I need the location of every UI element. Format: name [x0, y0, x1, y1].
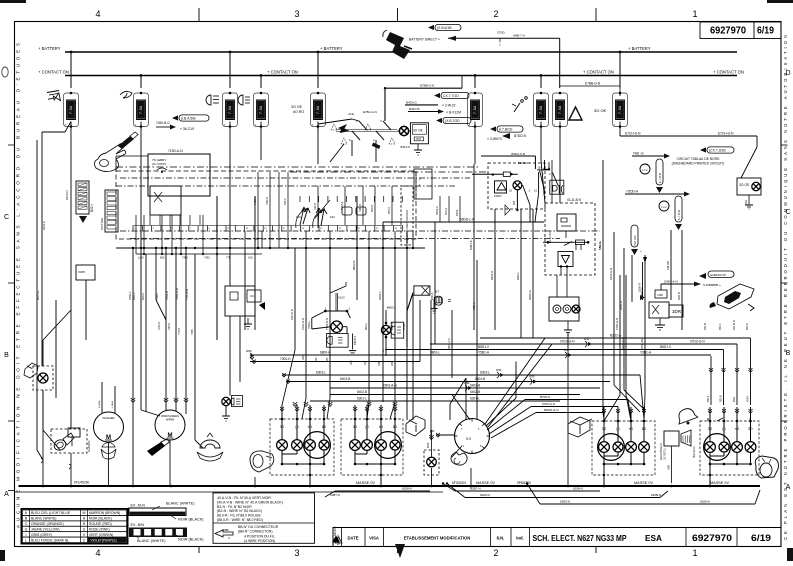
wire colour legend table — [21, 509, 127, 544]
bundle start chevrons — [246, 350, 290, 384]
band crossing verticals — [136, 172, 460, 254]
svg-text:+ CONTACT ON: + CONTACT ON — [267, 70, 298, 75]
svg-text:B15-2: B15-2 — [284, 198, 287, 205]
wire X12 pin6 down — [330, 140, 357, 196]
corner scan mark top-left — [0, 0, 26, 3]
svg-text:7.5A: 7.5A — [140, 105, 144, 114]
wire v620b — [619, 275, 621, 395]
svg-text:6-.7.B W: 6-.7.B W — [677, 209, 681, 220]
svg-text:W30: W30 — [464, 381, 470, 385]
wire fuse620 down — [619, 122, 621, 137]
svg-text:MASSE 0V: MASSE 0V — [634, 481, 653, 485]
svg-text:GB2-L: GB2-L — [516, 271, 520, 280]
glove icon below switch — [451, 452, 467, 465]
svg-text:D|(: D|( — [552, 184, 564, 194]
svg-text:7.5A: 7.5A — [474, 105, 478, 114]
wire v614 — [614, 232, 640, 412]
wire v217 — [216, 196, 218, 340]
svg-text:X33-B: X33-B — [168, 323, 171, 330]
svg-text:62B-N: 62B-N — [677, 292, 681, 300]
svg-text:E7BB-G-N: E7BB-G-N — [585, 82, 601, 86]
lamp cluster rear-left — [592, 407, 655, 486]
svg-text:X10-A-N: X10-A-N — [290, 309, 294, 320]
svg-text:DATE: DATE — [347, 536, 358, 541]
dash-dot harness line upper — [116, 166, 480, 168]
svg-text:7.5A: 7.5A — [229, 105, 233, 114]
svg-text:6402-B: 6402-B — [470, 390, 480, 394]
svg-text:B15: B15 — [160, 256, 165, 260]
svg-text:B8D1-V: B8D1-V — [478, 345, 490, 349]
wire v176 — [175, 248, 177, 411]
svg-text:(DASHBOARD PRINTED CIRCUIT): (DASHBOARD PRINTED CIRCUIT) — [672, 162, 725, 166]
hwire y401 — [310, 397, 560, 401]
svg-text:MARRON (BROWN): MARRON (BROWN) — [89, 511, 120, 515]
svg-text:B3DD-G-N: B3DD-G-N — [544, 408, 559, 412]
wire v557 — [557, 244, 576, 297]
svg-text:KIN: KIN — [430, 429, 434, 433]
svg-text:6404-B: 6404-B — [340, 377, 350, 381]
wiper control switch box 7150-A-N — [148, 154, 210, 215]
svg-text:RD-B: RD-B — [719, 395, 723, 402]
svg-text:95DD-L-A: 95DD-L-A — [460, 218, 475, 222]
hwire y349 — [385, 345, 724, 350]
svg-text:L/2N: L/2N — [138, 256, 144, 260]
svg-text:NOIR (BLACK): NOIR (BLACK) — [89, 517, 112, 521]
svg-text:F: F — [419, 177, 421, 181]
svg-text:7752-B-N: 7752-B-N — [325, 318, 329, 330]
wire fuse141 down — [140, 122, 142, 411]
svg-text:KM-AB: KM-AB — [666, 261, 670, 270]
svg-text:X38: X38 — [378, 361, 381, 366]
svg-text:STOP: STOP — [642, 170, 648, 172]
car body icon left — [250, 451, 274, 472]
svg-text:6927970: 6927970 — [710, 26, 747, 37]
fuse holder x=620 — [613, 51, 628, 128]
lamp module B — [381, 306, 455, 357]
svg-text:JAUNE (YELLOW): JAUNE (YELLOW) — [31, 527, 59, 531]
fuse holder x=475 — [468, 74, 483, 128]
svg-text:B7DD-N: B7DD-N — [514, 134, 527, 138]
svg-text:B5B-A: B5B-A — [390, 322, 394, 330]
label v642 — [638, 283, 642, 292]
svg-text:62B3-N: 62B3-N — [560, 500, 570, 504]
svg-text:Y5B1-A: Y5B1-A — [640, 351, 652, 355]
svg-text:8.N.: 8.N. — [497, 536, 505, 541]
svg-text:74B2-A: 74B2-A — [254, 196, 257, 205]
svg-text:B34: B34 — [732, 397, 736, 402]
svg-text:6302-L: 6302-L — [378, 291, 382, 300]
wire v395 — [394, 248, 396, 402]
svg-text:B4D?-B: B4D?-B — [409, 107, 420, 111]
svg-text:77D: 77D — [226, 256, 231, 260]
svg-text:RD-B-N: RD-B-N — [732, 320, 736, 330]
svg-text:» B-X12M: » B-X12M — [446, 110, 461, 114]
svg-text:STOP: STOP — [661, 207, 667, 209]
icon headlamp — [206, 95, 219, 105]
washer motor — [94, 412, 124, 442]
svg-text:B313-N: B313-N — [401, 145, 410, 149]
svg-text:B31B-N: B31B-N — [353, 336, 357, 345]
svg-text:BLANC (WHITE): BLANC (WHITE) — [137, 539, 166, 543]
capsule connector FVR — [631, 225, 647, 300]
fuse holder x=71 — [64, 51, 79, 128]
wire v146 — [145, 254, 147, 412]
wire v552 — [551, 160, 553, 203]
svg-text:7.5A: 7.5A — [317, 105, 321, 114]
horn klaxon — [51, 429, 91, 453]
svg-text:3DR: 3DR — [672, 309, 682, 314]
svg-text:K2B?-N: K2B?-N — [330, 493, 340, 497]
hand with connector icon — [94, 132, 138, 172]
junction row under band — [116, 247, 300, 249]
svg-text:B22 »: B22 » — [90, 203, 94, 212]
wire v671 — [670, 230, 672, 300]
wire fuse475 down — [474, 122, 476, 165]
svg-text:GL11-B N: GL11-B N — [567, 198, 582, 202]
wire 95DD-L-A — [383, 218, 544, 223]
svg-text:EX. B/N: EX. B/N — [131, 523, 145, 527]
svg-text:2902-A-N: 2902-A-N — [383, 384, 397, 388]
wire v369 — [368, 248, 370, 402]
svg-text:Y5B1-A: Y5B1-A — [478, 351, 490, 355]
svg-text:95D-A: 95D-A — [445, 208, 448, 215]
svg-text:7ODD-A: 7ODD-A — [626, 190, 639, 194]
svg-text:X3B: X3B — [667, 465, 671, 470]
svg-text:7210-B: 7210-B — [158, 322, 161, 330]
arrow labels below fuse 141 — [156, 115, 209, 131]
svg-text:1N: 1N — [383, 349, 385, 352]
lamp module A — [307, 307, 357, 353]
svg-text:3000-G: 3000-G — [619, 301, 623, 310]
svg-text:B4D?-A-N: B4D?-A-N — [447, 338, 451, 350]
zone column labels bottom (4 3 2 1) — [95, 547, 697, 559]
wire v521 — [520, 209, 522, 338]
svg-text:74B2: 74B2 — [155, 293, 159, 300]
svg-text:7.5A: 7.5A — [619, 105, 623, 114]
instrument cluster end box — [414, 169, 432, 199]
svg-text:C: C — [25, 522, 28, 526]
under-bus wire 1 — [443, 484, 600, 492]
svg-text:6303-L: 6303-L — [480, 371, 490, 375]
svg-text:S-9: S-9 — [466, 437, 471, 441]
svg-text:BD-1: BD-1 — [718, 323, 722, 330]
battery direct connector icon — [383, 30, 412, 59]
svg-text:X10-B: X10-B — [314, 203, 317, 210]
socket pair with lamp — [549, 297, 580, 335]
svg-text:B700-N: B700-N — [540, 395, 550, 399]
fuse holder x=261 — [254, 74, 269, 128]
bell icon — [675, 406, 698, 425]
ground B313 — [401, 144, 422, 155]
legend notes block — [213, 493, 340, 543]
svg-text:7452: 7452 — [204, 256, 210, 260]
svg-text:6402-B: 6402-B — [357, 390, 367, 394]
wire v420 — [419, 300, 421, 362]
svg-text:4: 4 — [95, 9, 100, 19]
svg-text:X37: X37 — [364, 360, 367, 365]
under-bus wire 4 — [325, 487, 430, 498]
wire fuse541 down — [541, 122, 545, 204]
junction row labels — [138, 256, 253, 260]
svg-text:630B-N: 630B-N — [651, 493, 661, 497]
svg-text:7.5A: 7.5A — [260, 105, 264, 114]
left ground sym — [244, 318, 252, 329]
svg-text:B8D1-V: B8D1-V — [660, 345, 672, 349]
svg-text:BB-N° DU CONNECTEUR: BB-N° DU CONNECTEUR — [238, 525, 279, 529]
module 3O OE mid — [410, 123, 428, 144]
fan out y406 — [489, 402, 618, 434]
relay assembly below band — [543, 203, 595, 275]
svg-text:VISA: VISA — [369, 536, 379, 541]
junction row right part — [300, 247, 425, 249]
under-bus wire 2 — [447, 484, 668, 498]
svg-text:L: L — [25, 538, 27, 542]
fan out y399 — [487, 395, 631, 430]
svg-text:+ CONTACT ON: + CONTACT ON — [38, 70, 69, 75]
svg-text:7.5A: 7.5A — [540, 105, 544, 114]
3d box icon right — [568, 417, 592, 437]
instrument harness dashed box — [116, 171, 600, 239]
svg-text:C3: C3 — [250, 294, 254, 298]
dash-dot harness line upper2 — [290, 171, 486, 173]
single side lamp — [424, 430, 439, 475]
wire v624 — [624, 248, 645, 410]
svg-text:7450-L: 7450-L — [128, 291, 132, 300]
svg-text:3O OE: 3O OE — [739, 183, 750, 187]
connector strip left low — [100, 190, 118, 232]
hwire y382 — [286, 377, 610, 382]
svg-text:2: 2 — [493, 548, 498, 558]
svg-text:7000-H: 7000-H — [280, 357, 291, 361]
wire X12 pin2 down — [372, 140, 381, 162]
svg-text:(X.B.6/1B: (X.B.6/1B — [437, 26, 452, 30]
dashboard printed circuit module — [672, 147, 761, 209]
svg-text:X34: X34 — [315, 357, 318, 362]
svg-text:62B: 62B — [513, 200, 516, 205]
relay 3DR — [649, 271, 734, 330]
wire v255 — [254, 196, 256, 330]
svg-text:7210-A-N: 7210-A-N — [301, 318, 305, 330]
svg-text:X39: X39 — [391, 361, 394, 366]
svg-text:+ BATTERY: + BATTERY — [38, 46, 61, 51]
svg-text:WCYTER: WCYTER — [100, 218, 104, 230]
svg-text:74B3-A: 74B3-A — [341, 201, 344, 210]
svg-text:X12(: X12( — [348, 112, 354, 116]
left small box X305 — [76, 265, 95, 340]
svg-text:MASSE 0V: MASSE 0V — [356, 481, 375, 485]
svg-text:E7B1-G-N: E7B1-G-N — [363, 110, 377, 114]
lamp cluster front-right — [341, 405, 403, 486]
wire feed cluster4 d — [706, 356, 713, 405]
svg-text:7.5A: 7.5A — [559, 105, 563, 114]
svg-text:B2-N : FIL N°B2 NOIR: B2-N : FIL N°B2 NOIR — [217, 505, 252, 509]
row letters right (D C B A) — [785, 70, 790, 491]
svg-text:B4D1-A: B4D1-A — [436, 206, 439, 215]
svg-text:S-WB6B5B »: S-WB6B5B » — [703, 283, 721, 287]
inline connector marks — [464, 337, 592, 391]
svg-text:6208-N: 6208-N — [573, 487, 583, 491]
junction row second — [136, 253, 262, 255]
svg-text:#O RO: #O RO — [293, 110, 304, 114]
wire v357 — [356, 196, 358, 300]
svg-text:7502-L: 7502-L — [307, 320, 311, 329]
svg-text:6402-B: 6402-B — [470, 384, 480, 388]
under-bus wire 3 — [527, 484, 760, 505]
svg-text:TAD-G: TAD-G — [598, 242, 602, 251]
svg-text:B4D2-L: B4D2-L — [387, 306, 397, 310]
icon lamp small — [238, 95, 250, 105]
svg-text:7483-A-N: 7483-A-N — [175, 288, 179, 300]
icon horn — [47, 91, 60, 104]
svg-text:(% COM'S: (% COM'S — [152, 162, 166, 166]
lamp behind X12 — [397, 126, 411, 135]
wire v330 — [329, 248, 331, 398]
svg-text:1: 1 — [692, 548, 697, 558]
svg-text:5FO/6301: 5FO/6301 — [452, 481, 466, 485]
wire fuse620 right run — [620, 132, 757, 179]
wire feed cluster4 c — [719, 350, 726, 406]
svg-text:6203-G-N: 6203-G-N — [609, 268, 613, 280]
svg-text:6/19: 6/19 — [751, 533, 771, 543]
svg-text:FVR F3G: FVR F3G — [634, 235, 637, 246]
switch feed from left — [430, 429, 455, 437]
warning triangle right of fuse — [569, 107, 582, 120]
hwire y386 — [330, 384, 600, 389]
svg-text:6800-H: 6800-H — [320, 351, 331, 355]
wire v474 — [473, 164, 475, 330]
svg-text:6208-N: 6208-N — [402, 487, 412, 491]
svg-text:BD-A: BD-A — [745, 323, 749, 330]
svg-text:74B2: 74B2 — [182, 256, 189, 260]
wire v642 — [640, 262, 645, 300]
svg-text:950-L: 950-L — [364, 322, 368, 330]
svg-text:62A: 62A — [744, 200, 748, 205]
arrow label top-left area — [428, 24, 461, 30]
wire feed cluster4 a — [746, 338, 753, 405]
left relay C3 — [225, 286, 265, 316]
bus +BATTERY — [38, 46, 737, 52]
wire fuse261 down — [260, 122, 262, 161]
ignition key icon — [710, 284, 755, 311]
svg-text:B4D3-G: B4D3-G — [406, 101, 418, 105]
svg-text:(CX.7.3/1B: (CX.7.3/1B — [709, 149, 726, 153]
backup buzzer — [660, 430, 696, 483]
svg-text:DE RECUL: DE RECUL — [664, 447, 667, 460]
svg-text:W85-7-A: W85-7-A — [513, 34, 525, 38]
svg-text:» 2-W.22: » 2-W.22 — [442, 103, 456, 107]
svg-text:X35: X35 — [326, 357, 329, 362]
cluster label strip — [401, 186, 413, 245]
zone column labels top (4 3 2 1) — [95, 8, 697, 22]
label X123 — [330, 282, 346, 311]
svg-text:E7CH-G-N: E7CH-G-N — [718, 132, 734, 136]
left lamp in dashed box — [33, 366, 53, 390]
svg-text:88.0-R : FIL N°88.0 ROUGE: 88.0-R : FIL N°88.0 ROUGE — [217, 514, 262, 518]
svg-text:BATTERY DIRECT »: BATTERY DIRECT » — [409, 38, 440, 42]
svg-text:6927970: 6927970 — [692, 533, 732, 543]
junction dots y248 extra — [143, 247, 289, 249]
wire v466 — [465, 378, 467, 420]
svg-text:X305: X305 — [78, 270, 85, 274]
corner scan mark bottom-left — [0, 550, 5, 561]
wire fuse71 down — [70, 122, 72, 411]
svg-text:6200-N: 6200-N — [480, 493, 490, 497]
svg-text:4: 4 — [95, 548, 100, 558]
wiper arm icon — [147, 439, 170, 456]
svg-text:6200-B: 6200-B — [638, 283, 642, 292]
svg-text:NOIR (BLACK): NOIR (BLACK) — [178, 538, 204, 542]
svg-text:74B5: 74B5 — [191, 329, 194, 335]
wire v431 — [430, 300, 432, 440]
svg-text:7BD-N: 7BD-N — [472, 302, 476, 310]
wire v682 — [681, 230, 683, 330]
svg-text:W30: W30 — [584, 337, 590, 341]
svg-text:BLANC (WHITE): BLANC (WHITE) — [31, 517, 56, 521]
svg-text:9800-L: 9800-L — [430, 351, 440, 355]
left car icon — [24, 363, 38, 378]
hwire y356 — [250, 351, 711, 362]
svg-text:W30: W30 — [496, 368, 502, 372]
wire v603 — [598, 160, 604, 419]
wiper park icon — [197, 433, 223, 461]
svg-text:N: N — [83, 517, 86, 521]
wire feed cluster4 b — [732, 344, 739, 405]
svg-text:» 3-W070: » 3-W070 — [487, 137, 502, 141]
svg-text:7150-A-N: 7150-A-N — [168, 149, 183, 153]
svg-text:3-MB: 3-MB — [657, 294, 663, 297]
svg-text:6321-C: 6321-C — [42, 221, 46, 230]
svg-text:VERT (GREEN): VERT (GREEN) — [89, 533, 113, 537]
svg-text:W30: W30 — [529, 375, 535, 379]
svg-text:9B02-B: 9B02-B — [352, 261, 356, 270]
svg-text:W8D: W8D — [246, 350, 252, 353]
label 7150-A-N — [168, 149, 183, 153]
wire v435 — [430, 222, 435, 344]
svg-text:3O OE: 3O OE — [413, 129, 423, 133]
svg-text:7483-B: 7483-B — [359, 204, 362, 212]
row ticks edges — [8, 145, 788, 421]
svg-text:+ BATTERY: + BATTERY — [320, 46, 343, 51]
wire v495 — [494, 209, 496, 330]
svg-text:Ind.: Ind. — [516, 536, 523, 541]
lamp cluster front-left — [270, 405, 334, 486]
connector strip B22 — [76, 181, 94, 223]
battery direct feed wire — [409, 31, 560, 89]
fan up vertical — [486, 362, 516, 427]
svg-text:GRIS (GREY): GRIS (GREY) — [31, 533, 52, 537]
svg-text:BLEU CIEL (LIGHT BLUE: BLEU CIEL (LIGHT BLUE — [31, 511, 71, 515]
wire v306 — [305, 248, 307, 398]
svg-text:KLAXON: KLAXON — [87, 441, 91, 452]
svg-text:BLANC (WHITE): BLANC (WHITE) — [166, 502, 195, 506]
hole punch left — [2, 67, 8, 77]
wire E7B1 to X12 — [363, 88, 387, 123]
icon toggle switch — [512, 97, 527, 112]
legend last row text — [91, 538, 117, 542]
svg-text:E7BB-G-N: E7BB-G-N — [420, 84, 434, 88]
svg-text:MODIF.: MODIF. — [333, 526, 337, 536]
svg-text:B: B — [4, 352, 9, 359]
svg-text:TAD -G: TAD -G — [633, 152, 644, 156]
svg-text:6301-L: 6301-L — [470, 397, 480, 401]
wire E7BB top of fuse620 — [560, 82, 620, 97]
svg-text:B3D2-C-B: B3D2-C-B — [511, 152, 525, 156]
svg-text:(B2-N : WIRE N° B2 BLACK): (B2-N : WIRE N° B2 BLACK) — [217, 509, 262, 513]
connector X12 — [318, 112, 397, 276]
svg-text:(BACKUP): (BACKUP) — [693, 446, 696, 458]
modif triangle — [335, 537, 342, 543]
svg-text:6861-A: 6861-A — [490, 271, 494, 280]
